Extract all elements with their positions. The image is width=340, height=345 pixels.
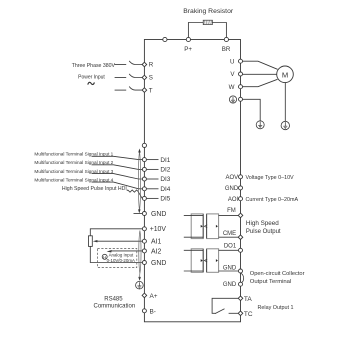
terminal T: [142, 88, 147, 93]
wire motor to earth: [284, 83, 286, 122]
svg-text:AOI: AOI: [228, 197, 239, 203]
terminal (unlabeled) on left edge above DI group: [142, 143, 146, 147]
terminal DI4: [147, 188, 159, 190]
svg-text:DI2: DI2: [160, 167, 170, 174]
terminal AI1: [142, 239, 146, 243]
optocoupler output U3 (open collector): [191, 249, 203, 272]
relay contact K1: [212, 298, 238, 313]
svg-text:TC: TC: [244, 311, 253, 318]
svg-text:DI1: DI1: [160, 157, 170, 164]
svg-text:AI2: AI2: [151, 248, 162, 255]
link arc between GND terminals: [241, 273, 244, 283]
shield ellipse over DI wires: [138, 152, 140, 211]
wire opto2 top stub: [184, 249, 203, 251]
wire U to motor: [243, 61, 278, 69]
inverter main unit outline: [144, 40, 240, 322]
svg-text:AI1: AI1: [151, 239, 162, 246]
svg-text:M: M: [282, 70, 288, 79]
wire P+ to braking resistor to BR: [188, 23, 226, 40]
terminal W: [239, 85, 243, 89]
terminal DI1: [147, 159, 159, 161]
wire input 2 to DI2: [92, 165, 143, 170]
svg-text:CME: CME: [223, 231, 236, 237]
svg-text:0-10V/0-20mA: 0-10V/0-20mA: [107, 258, 135, 263]
switch blade for phase R: [115, 64, 127, 66]
svg-text:GND: GND: [151, 260, 166, 267]
terminal +10V: [142, 227, 146, 231]
terminal DI2: [147, 168, 159, 170]
terminal TA: [238, 296, 243, 301]
wire opto2 bottom stub: [184, 270, 203, 272]
dashed box Analog Input 0-10V/0-20mA: [98, 249, 137, 268]
svg-text:DI3: DI3: [160, 176, 170, 183]
wire opto2 bottom to GND: [219, 270, 239, 272]
svg-text:U: U: [230, 58, 234, 65]
motor M1: [277, 66, 294, 83]
svg-text:FM: FM: [227, 208, 236, 214]
terminal TC: [238, 311, 243, 316]
wire opto2 top to DO1: [219, 249, 239, 251]
wire opto1 bottom to CME: [219, 236, 239, 238]
shield arrow bottom to GND wire: [138, 209, 141, 213]
terminal AOV: [239, 175, 243, 179]
terminal B-: [142, 309, 146, 313]
terminal DO1: [239, 248, 243, 252]
svg-text:GND: GND: [225, 186, 239, 192]
svg-text:R: R: [149, 62, 154, 69]
wire AI2 stub with arrow: [111, 250, 142, 252]
terminal GND (analog): [142, 261, 146, 265]
svg-text:Three Phase 380V: Three Phase 380V: [72, 63, 116, 69]
optocoupler output U2 (high speed pulse): [191, 214, 203, 239]
svg-text:W: W: [229, 84, 235, 91]
terminal CME: [238, 235, 243, 240]
wire GND (digital common): [134, 213, 143, 215]
terminal AI2: [142, 249, 146, 253]
terminal GND (opto2): [239, 269, 243, 273]
svg-text:DI5: DI5: [160, 196, 170, 203]
terminal PE: [239, 97, 243, 101]
svg-text:Output Terminal: Output Terminal: [250, 279, 291, 285]
terminal BR: [224, 37, 228, 41]
wire potentiometer bottom to GND (analog): [90, 246, 142, 262]
shield arrow to earth: [138, 277, 141, 281]
terminal GND (AOV): [239, 186, 243, 190]
svg-text:GND: GND: [151, 211, 166, 218]
earth ground symbol (analog shield): [136, 281, 144, 289]
wire V to motor: [243, 73, 277, 75]
wire +10V to potentiometer: [90, 229, 142, 236]
svg-text:P+: P+: [184, 46, 192, 53]
svg-text:High Speed: High Speed: [246, 220, 279, 227]
wire opto1 top stub: [184, 215, 203, 217]
terminal (unlabeled) on top edge: [163, 37, 167, 41]
terminal GND (digital): [142, 212, 146, 216]
svg-text:Braking Resistor: Braking Resistor: [183, 8, 234, 15]
terminal GND (lower): [239, 282, 243, 286]
wire opto1 top to FM: [219, 215, 239, 217]
wire input 3 to DI3: [92, 174, 143, 179]
svg-text:Power Input: Power Input: [78, 75, 105, 81]
svg-text:Current Type 0–20mA: Current Type 0–20mA: [246, 197, 299, 203]
svg-text:AOV: AOV: [226, 175, 239, 181]
terminal DI5: [147, 197, 159, 199]
svg-text:High Speed Pulse Input HDI: High Speed Pulse Input HDI: [62, 186, 127, 192]
shield arrow top: [138, 149, 141, 153]
wire input 4 to DI4: [92, 182, 143, 189]
svg-text:TA: TA: [244, 296, 252, 303]
svg-text:Pulse Output: Pulse Output: [246, 229, 281, 235]
analog source symbol: [102, 254, 107, 259]
terminal V: [239, 72, 243, 76]
terminal FM: [238, 213, 243, 218]
terminal A+: [142, 293, 147, 298]
svg-text:DI4: DI4: [160, 186, 170, 193]
wire potentiometer wiper to AI1 with arrow: [97, 240, 142, 242]
shield ellipse over analog wires: [139, 231, 141, 274]
wire HDI to DI5 with coil: [127, 190, 142, 198]
svg-text:S: S: [149, 75, 153, 82]
switch blade for phase T: [115, 89, 127, 91]
svg-text:DO1: DO1: [224, 244, 237, 250]
svg-text:Voltage Type 0–10V: Voltage Type 0–10V: [246, 175, 295, 181]
resistor RB (braking resistor body): [203, 20, 212, 24]
earth ground symbol (motor): [281, 121, 289, 129]
terminal AOI: [239, 197, 243, 201]
terminal DI3: [147, 178, 159, 180]
PE terminal symbol inside unit: [229, 96, 236, 103]
wire W to motor: [243, 79, 278, 86]
svg-text:BR: BR: [222, 46, 231, 53]
svg-text:GND: GND: [223, 282, 237, 288]
wire input 1 to DI1: [92, 156, 143, 159]
svg-text:T: T: [149, 87, 153, 94]
terminal R: [142, 62, 147, 67]
switch blade for phase S: [115, 77, 127, 79]
wire opto1 bottom stub: [184, 236, 203, 238]
svg-text:GND: GND: [223, 265, 237, 271]
potentiometer RP: [89, 236, 93, 247]
svg-text:A+: A+: [150, 293, 158, 300]
svg-text:B-: B-: [150, 308, 156, 315]
svg-text:Open-circuit Collector: Open-circuit Collector: [250, 271, 305, 277]
terminal S: [142, 75, 147, 80]
svg-text:+10V: +10V: [150, 226, 167, 233]
terminal U: [239, 59, 243, 63]
wire PE terminal to earth: [243, 99, 261, 121]
terminal P+: [186, 37, 190, 41]
svg-text:Communication: Communication: [94, 304, 136, 310]
svg-text:RS485: RS485: [104, 297, 123, 303]
earth ground symbol (PE): [256, 121, 264, 129]
svg-text:Relay Output 1: Relay Output 1: [258, 305, 294, 311]
